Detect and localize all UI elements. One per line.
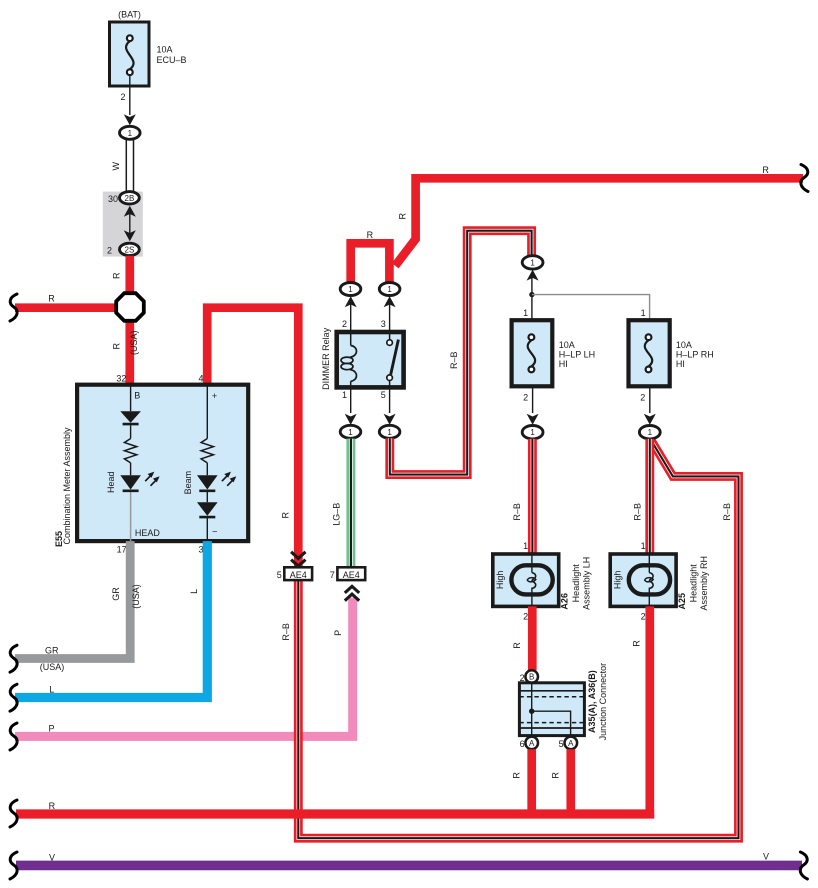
svg-text:W: W (111, 162, 121, 171)
svg-text:−: − (212, 526, 217, 536)
wire to RH fuse (thin) (532, 295, 650, 321)
connector node 1 (top) (120, 126, 141, 139)
svg-text:HI: HI (676, 359, 685, 369)
svg-text:R: R (111, 343, 121, 350)
svg-text:R: R (632, 640, 642, 647)
wire R-B to LH headlight (528, 439, 537, 554)
svg-text:Head: Head (106, 471, 116, 493)
svg-text:R–B: R–B (633, 503, 643, 521)
svg-text:5: 5 (559, 739, 564, 749)
wire R junction left down (527, 749, 536, 813)
svg-text:A25: A25 (677, 593, 687, 610)
svg-text:R–B: R–B (449, 351, 459, 369)
A26 high-beam bulb (511, 565, 552, 594)
svg-text:R: R (280, 512, 290, 519)
wire R bottom rail (16, 809, 654, 818)
connector A (junction bottom left) (525, 737, 538, 750)
wire R top rail with corner to relay (395, 178, 803, 265)
wire LG-B (346, 439, 355, 568)
fuse H-LP RH box (629, 320, 670, 386)
svg-text:(USA): (USA) (131, 584, 141, 609)
junction block gray box (103, 192, 143, 257)
chevron arrows into AE4-7 (345, 586, 359, 600)
svg-text:2: 2 (640, 393, 645, 403)
relay switch (387, 334, 399, 386)
arrow into 2S (124, 230, 136, 241)
junction connector box (519, 683, 584, 736)
svg-text:R: R (367, 230, 374, 240)
dimmer relay box (337, 332, 404, 387)
svg-text:2: 2 (107, 245, 112, 255)
arrow into LH headlight node (527, 414, 539, 425)
svg-text:Assembly LH: Assembly LH (582, 557, 592, 610)
arrow into relay top node left (345, 296, 357, 307)
connector node 1 (LH headlight) (522, 426, 543, 439)
svg-text:Junction Connector: Junction Connector (598, 663, 608, 741)
svg-text:(USA): (USA) (40, 662, 65, 672)
svg-text:1: 1 (387, 428, 392, 437)
connector node 1 (relay pin3 top) (379, 283, 400, 296)
svg-text:(USA): (USA) (129, 331, 139, 356)
right page edge squiggle (R top) (801, 165, 808, 192)
svg-text:R–B: R–B (281, 623, 291, 641)
arrow into relay bottom node right (384, 414, 396, 425)
svg-text:P: P (333, 630, 343, 636)
wire R below node (125, 312, 134, 385)
svg-text:H–LP RH: H–LP RH (676, 350, 714, 360)
meter internal line right (206, 385, 208, 541)
resistor R1 (head) (124, 439, 136, 463)
wire R from meter pin4 to AE4 (207, 308, 298, 567)
connector node 1 (relay pin2 top) (340, 283, 361, 296)
arrow into 2B (124, 206, 136, 217)
svg-text:R: R (512, 642, 522, 649)
connector node 1 (relay pin5 bottom) (379, 425, 400, 438)
arrow into relay top node right (384, 296, 396, 307)
svg-text:2: 2 (523, 611, 528, 621)
diode D2 (197, 502, 218, 517)
svg-text:High: High (495, 571, 505, 590)
svg-text:3: 3 (381, 319, 386, 329)
svg-text:R: R (112, 272, 122, 279)
wire R-B to RH headlight (645, 439, 654, 554)
svg-text:Assembly RH: Assembly RH (699, 556, 709, 611)
fuse H-LP LH symbol (528, 334, 536, 372)
svg-text:High: High (613, 571, 623, 590)
svg-text:1: 1 (641, 308, 646, 318)
chevron arrows into AE4-5 (291, 552, 305, 566)
svg-text:1: 1 (523, 541, 528, 551)
svg-text:HI: HI (559, 359, 568, 369)
svg-text:B: B (529, 673, 534, 682)
svg-text:6: 6 (520, 739, 525, 749)
connector node 2B (119, 192, 139, 204)
svg-text:Combination Meter Assembly: Combination Meter Assembly (62, 427, 72, 545)
octagon junction node (116, 293, 144, 321)
relay coil (341, 334, 356, 386)
svg-text:1: 1 (342, 390, 347, 400)
svg-text:R: R (48, 294, 55, 304)
connector AE4 (pin 7) (337, 567, 365, 580)
svg-text:1: 1 (648, 428, 653, 437)
svg-text:1: 1 (530, 258, 535, 267)
svg-text:1: 1 (348, 428, 353, 437)
svg-text:R: R (512, 772, 522, 779)
svg-text:GR: GR (111, 587, 121, 601)
junction internal dashed lines (519, 697, 584, 723)
svg-text:AE4: AE4 (343, 570, 360, 580)
wire R from A26 pin2 (528, 606, 537, 670)
svg-text:1: 1 (348, 285, 353, 294)
svg-text:LG–B: LG–B (331, 503, 341, 526)
right page edge squiggle (V) (800, 852, 807, 879)
left page edge squiggle (L) (10, 684, 17, 711)
svg-text:GR: GR (45, 646, 59, 656)
wire R relay bridge (351, 243, 390, 283)
resistor R2 (beam) (201, 439, 213, 463)
junction internal solid lines (519, 691, 584, 728)
connector B (junction top) (525, 670, 538, 683)
A26 internal line (531, 554, 533, 606)
svg-text:L: L (49, 684, 54, 694)
svg-text:4: 4 (198, 373, 203, 383)
connector node 1 (RH headlight) (639, 426, 660, 439)
left page edge squiggle (GR) (10, 645, 17, 672)
svg-text:2: 2 (523, 393, 528, 403)
svg-text:7: 7 (330, 570, 335, 580)
wire relay pin1 down (350, 387, 352, 413)
connector arrow into node 1 (124, 114, 136, 125)
svg-text:1: 1 (128, 129, 133, 138)
wire RH fuse pin2 down (649, 386, 651, 413)
svg-text:2B: 2B (125, 194, 135, 203)
junction dot (529, 292, 534, 297)
wire LH fuse pin2 down (532, 386, 534, 413)
svg-text:Beam: Beam (183, 471, 193, 495)
LED beam indicator (197, 475, 218, 491)
connector AE4 (pin 5) (284, 567, 312, 580)
fuse ECU-B box (110, 22, 150, 86)
svg-text:R: R (762, 165, 769, 175)
wire R from A25 pin2 (645, 606, 654, 818)
left page edge squiggle (R) (10, 294, 17, 321)
meter E55 box (77, 385, 248, 541)
svg-text:L: L (189, 589, 199, 594)
svg-text:5: 5 (277, 570, 282, 580)
svg-text:Headlight: Headlight (688, 564, 698, 603)
svg-text:A35(A), A36(B): A35(A), A36(B) (587, 670, 597, 733)
svg-text:B: B (134, 391, 140, 401)
svg-text:Headlight: Headlight (571, 564, 581, 603)
wire R from 2S to node (125, 256, 134, 300)
svg-text:32: 32 (116, 373, 126, 383)
wire W (white, hollow) (126, 139, 133, 192)
fuse H-LP LH box (512, 320, 553, 386)
svg-text:R: R (49, 801, 56, 811)
connector node 1 (relay pin1 bottom) (340, 425, 361, 438)
left page edge squiggle (P) (10, 723, 17, 750)
svg-text:5: 5 (381, 390, 386, 400)
svg-text:A: A (568, 739, 574, 748)
A25 high-beam bulb (629, 565, 670, 594)
wire P pink (15, 598, 353, 737)
diode D1 (120, 411, 141, 424)
left page edge squiggle (V) (10, 852, 17, 879)
wire 2B to 2S (129, 212, 131, 235)
svg-text:DIMMER Relay: DIMMER Relay (321, 327, 331, 390)
wire relay pin3 up (389, 303, 391, 332)
svg-text:V: V (763, 852, 769, 862)
wire GR (USA) (15, 541, 130, 658)
wire LH fuse node down (531, 277, 533, 321)
svg-text:1: 1 (641, 541, 646, 551)
svg-text:1: 1 (530, 428, 535, 437)
LED head indicator (120, 475, 141, 491)
wire R junction right down (566, 749, 575, 813)
svg-text:1: 1 (387, 285, 392, 294)
connector node 1 (LH fuse top) (522, 256, 543, 269)
svg-text:ECU–B: ECU–B (157, 55, 187, 65)
junction internal wiring (532, 683, 571, 736)
headlight assembly A26 box (493, 554, 559, 606)
fuse ECU-B symbol (126, 35, 134, 75)
svg-text:A: A (529, 739, 535, 748)
svg-text:V: V (49, 852, 55, 862)
wire L blue (15, 541, 207, 697)
svg-text:30: 30 (108, 194, 118, 204)
svg-text:10A: 10A (559, 340, 575, 350)
svg-text:10A: 10A (676, 340, 692, 350)
svg-text:2S: 2S (125, 245, 135, 254)
svg-text:2: 2 (520, 673, 525, 683)
svg-text:2: 2 (120, 92, 125, 102)
connector node 2S (119, 243, 139, 255)
connector A (junction bottom right) (565, 737, 578, 750)
svg-text:+: + (212, 391, 217, 401)
svg-text:2: 2 (641, 611, 646, 621)
arrow into relay bottom node left (345, 414, 357, 425)
meter internal line left (130, 385, 132, 476)
svg-text:2: 2 (342, 319, 347, 329)
wire R-B relay to fuses (390, 231, 532, 475)
svg-text:(BAT): (BAT) (118, 10, 141, 20)
wire R to left page edge (15, 303, 122, 312)
svg-text:17: 17 (117, 545, 127, 555)
wire relay pin2 up (350, 303, 352, 332)
svg-text:HEAD: HEAD (135, 528, 161, 538)
wire R-B bypass to AE4-5 (298, 439, 738, 839)
left page edge squiggle (R bottom) (10, 800, 17, 827)
svg-text:10A: 10A (157, 45, 173, 55)
wire fuse pin2 down (129, 75, 131, 115)
svg-text:H–LP LH: H–LP LH (559, 350, 595, 360)
svg-text:AE4: AE4 (290, 570, 307, 580)
arrow into RH headlight node (644, 414, 656, 425)
wire V bottom rail (16, 861, 802, 871)
A25 internal line (648, 554, 650, 606)
svg-text:R–B: R–B (722, 503, 732, 521)
svg-text:A26: A26 (560, 593, 570, 610)
svg-text:R: R (398, 212, 408, 219)
svg-text:1: 1 (523, 308, 528, 318)
arrow into LH fuse node (527, 270, 539, 281)
wire relay pin5 down (389, 387, 391, 413)
svg-text:R–B: R–B (512, 503, 522, 521)
fuse H-LP RH symbol (645, 334, 653, 372)
headlight assembly A25 box (610, 554, 676, 606)
svg-text:P: P (48, 723, 54, 733)
svg-text:R: R (551, 772, 561, 779)
